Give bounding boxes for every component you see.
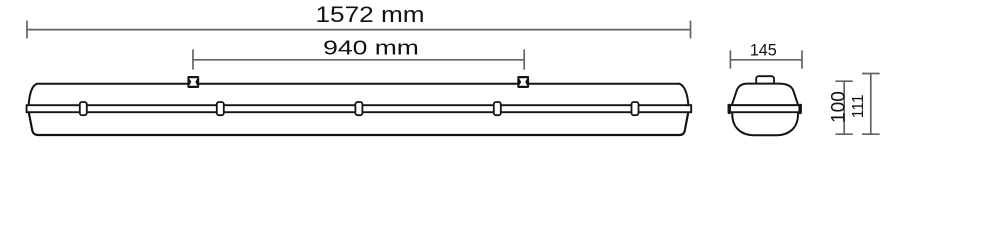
svg-text:940 mm: 940 mm [323, 37, 419, 59]
dimension 940 mm line [193, 49, 524, 69]
end view: left band end cap [728, 104, 731, 114]
svg-text:111: 111 [850, 95, 867, 119]
latch band (front view) [27, 105, 692, 112]
dimension 100 line (vertical) [836, 81, 853, 134]
latch clip 1 [80, 102, 87, 115]
end view: top tab [756, 76, 774, 85]
end view: lower dome diffuser [732, 112, 798, 135]
end view: latch band [729, 105, 801, 112]
latch clip 5 [632, 102, 639, 115]
luminaire front view: upper housing [29, 84, 689, 105]
latch clip 2 [217, 102, 224, 115]
svg-text:1572 mm: 1572 mm [315, 3, 424, 28]
luminaire front view: lower diffuser tray [29, 112, 689, 135]
mounting bracket left (top) [187, 76, 199, 88]
mounting bracket right (top) [517, 76, 529, 88]
svg-text:100: 100 [828, 91, 849, 123]
latch clip 3 [355, 102, 362, 115]
end view: upper housing [732, 84, 798, 106]
latch clip 4 [494, 102, 501, 115]
dimension 1572 mm line [27, 21, 691, 39]
dimension 111 line (vertical) [862, 74, 880, 135]
svg-text:145: 145 [750, 40, 777, 59]
dimension 145 line [730, 50, 802, 68]
end view: right band end cap [798, 104, 801, 114]
